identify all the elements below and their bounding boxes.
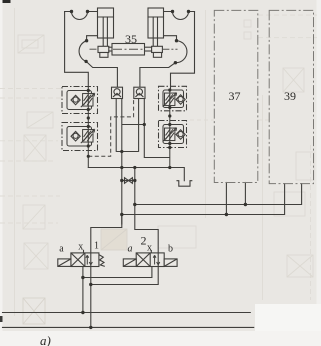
svg-text:1: 1: [94, 241, 99, 252]
svg-text:37: 37: [229, 89, 241, 103]
svg-text:x: x: [78, 242, 83, 253]
svg-text:a: a: [128, 244, 133, 255]
svg-text:a): a): [40, 333, 51, 346]
svg-text:x: x: [147, 243, 152, 254]
svg-text:a: a: [59, 244, 64, 255]
svg-text:35: 35: [125, 32, 137, 46]
svg-text:39: 39: [284, 89, 296, 103]
svg-text:2: 2: [141, 234, 147, 248]
svg-text:b: b: [168, 244, 173, 255]
